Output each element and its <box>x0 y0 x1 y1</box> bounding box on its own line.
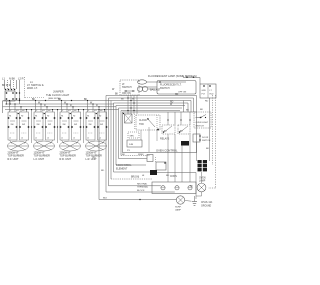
wire nest v4 <box>113 103 115 172</box>
wire inter-group <box>31 110 33 143</box>
svg-text:L2: L2 <box>21 138 23 140</box>
chassis ground symbol <box>192 201 197 203</box>
svg-text:L1: L1 <box>87 138 89 140</box>
node terminals right of SW1 <box>16 92 17 93</box>
svg-text:L2: L2 <box>99 138 101 140</box>
svg-text:H1: H1 <box>9 116 11 118</box>
svg-text:SWITCH: SWITCH <box>196 126 205 128</box>
svg-text:R.F. UNIT: R.F. UNIT <box>8 158 19 161</box>
box lamp holder <box>200 84 216 98</box>
terminal L1 <box>161 186 165 190</box>
svg-text:SW: SW <box>11 124 14 126</box>
wire nest v2 <box>108 98 110 186</box>
leader dashed <box>25 97 44 99</box>
switch SW1 terminals <box>5 89 6 90</box>
wire <box>13 80 15 89</box>
wire <box>201 192 203 196</box>
switch S3 RR surface switch <box>61 101 63 113</box>
wire verticals to terminal block <box>195 173 197 200</box>
lamp starter oval <box>138 80 147 84</box>
oven light switch dashed box <box>194 112 211 128</box>
node junction <box>45 100 46 101</box>
svg-text:OFF ON: OFF ON <box>122 93 131 95</box>
bake element box <box>156 162 166 170</box>
svg-text:L1: L1 <box>61 138 63 140</box>
wire bottom rail <box>99 199 177 201</box>
svg-text:DJB: DJB <box>129 144 134 146</box>
wire left ground run <box>98 110 100 200</box>
transformer T1 <box>125 114 133 123</box>
wire <box>114 171 151 173</box>
svg-text:LAMP: LAMP <box>199 180 206 183</box>
wire <box>6 101 8 104</box>
svg-text:R.R. UNIT: R.R. UNIT <box>60 158 72 161</box>
svg-text:BLOCK: BLOCK <box>137 190 145 192</box>
wire inter-group <box>57 110 59 143</box>
svg-text:TERMINAL: TERMINAL <box>137 186 149 189</box>
svg-text:L.R. UNIT: L.R. UNIT <box>86 158 98 161</box>
wire <box>7 80 9 89</box>
node junction <box>71 100 72 101</box>
switch S2 LF surface switch <box>35 101 37 113</box>
connector P1 dark <box>181 141 189 146</box>
wire bus L1 <box>3 100 112 102</box>
svg-text:OVEN CONTROL: OVEN CONTROL <box>156 148 178 152</box>
svg-text:BR(GN): BR(GN) <box>131 177 139 179</box>
svg-text:BK W R: BK W R <box>2 84 11 87</box>
node junction <box>19 100 20 101</box>
wire nest v5 <box>115 106 117 166</box>
wires into control top <box>127 96 129 115</box>
svg-text:GRD: GRD <box>202 90 207 92</box>
svg-text:WAR. LT.: WAR. LT. <box>27 86 38 90</box>
svg-text:DOOR: DOOR <box>202 137 209 139</box>
wire <box>16 80 18 89</box>
wire nest v1 <box>105 96 107 193</box>
wire <box>139 86 157 88</box>
svg-text:RD: RD <box>101 170 105 172</box>
wire nest h6 <box>119 107 183 109</box>
wire <box>201 172 203 183</box>
sensor box <box>128 132 139 138</box>
heating element E1 surface burner <box>8 141 29 151</box>
wires inside control <box>140 130 142 140</box>
heating element E4 surface burner <box>86 141 107 151</box>
switch S1 RF surface switch <box>9 101 11 113</box>
switch S4 LR surface switch <box>87 101 89 113</box>
wire nest v6 <box>118 108 120 159</box>
wire dashed <box>111 178 152 180</box>
wire <box>10 80 12 89</box>
svg-text:THE CLOCK LIGHT: THE CLOCK LIGHT <box>46 93 70 97</box>
terminal N <box>175 186 179 190</box>
relay K2 bake <box>162 125 175 134</box>
wire nest v7 <box>120 111 122 156</box>
connector P2 dark pairs <box>198 160 202 163</box>
svg-text:L1: L1 <box>9 138 11 140</box>
svg-text:SW: SW <box>48 124 51 126</box>
svg-text:H2: H2 <box>47 116 49 118</box>
svg-text:L2: L2 <box>73 138 75 140</box>
wire <box>19 80 21 104</box>
wire <box>109 185 161 187</box>
svg-text:CLOCK: CLOCK <box>139 120 147 122</box>
svg-text:SW: SW <box>100 124 103 126</box>
wire nest h2 <box>109 97 194 99</box>
svg-text:L1: L1 <box>35 138 37 140</box>
wire <box>4 80 6 89</box>
wire margin dashed v <box>212 95 214 165</box>
svg-text:SW: SW <box>37 124 40 126</box>
svg-text:NEUTRAL: NEUTRAL <box>137 183 148 186</box>
wire nest h7 <box>121 110 180 112</box>
svg-text:OVEN LIGHT: OVEN LIGHT <box>196 122 209 124</box>
wire right bends <box>196 96 198 113</box>
svg-text:H1: H1 <box>35 116 37 118</box>
wire inter-group <box>83 110 85 143</box>
heating element E3 surface burner <box>60 141 81 151</box>
svg-text:SWITCH: SWITCH <box>160 87 170 90</box>
terminal L2 <box>188 186 192 190</box>
svg-text:SWITCH: SWITCH <box>202 140 211 142</box>
svg-text:H1: H1 <box>61 116 63 118</box>
svg-text:CONN: CONN <box>170 176 177 178</box>
terminal block box <box>152 182 196 194</box>
svg-text:L.F. UNIT: L.F. UNIT <box>34 158 45 161</box>
svg-text:HLD: HLD <box>210 94 215 96</box>
broil element box <box>147 155 153 162</box>
relay K1 <box>147 118 155 127</box>
wire <box>2 101 4 113</box>
wire <box>9 101 11 105</box>
clock dashed box <box>136 115 160 130</box>
svg-text:OVEN: OVEN <box>199 178 206 180</box>
svg-text:SW: SW <box>89 124 92 126</box>
wire dashed <box>24 77 26 99</box>
lamp oven <box>197 183 206 192</box>
svg-text:SW: SW <box>74 124 77 126</box>
fuse surface lamp <box>176 196 184 204</box>
svg-text:TOD: TOD <box>139 124 144 126</box>
connector dark on wire <box>150 170 157 175</box>
wire bus <box>3 106 117 108</box>
wire <box>196 142 198 161</box>
heating element E2 surface burner <box>34 141 55 151</box>
svg-text:SW: SW <box>22 124 25 126</box>
svg-text:H2: H2 <box>99 116 101 118</box>
svg-text:N BK: N BK <box>9 77 15 81</box>
svg-text:H2: H2 <box>21 116 23 118</box>
wire nest h4 <box>114 102 189 104</box>
svg-text:H1: H1 <box>87 116 89 118</box>
svg-text:H2: H2 <box>73 116 75 118</box>
wire <box>196 77 200 79</box>
wire dashed <box>121 155 150 157</box>
svg-text:SEN: SEN <box>130 135 135 137</box>
svg-text:CHAS. GD.: CHAS. GD. <box>201 201 213 204</box>
wire nest v3 <box>110 101 112 180</box>
wire nest h1 <box>106 95 197 97</box>
wire nest h3 <box>111 100 191 102</box>
wire bus N <box>5 103 114 105</box>
svg-text:OFF ON: OFF ON <box>178 92 187 94</box>
svg-text:GROUND: GROUND <box>201 205 212 207</box>
svg-text:L2: L2 <box>47 138 49 140</box>
wire <box>116 164 146 166</box>
switch oven-light dashed box <box>120 80 139 95</box>
wire <box>119 158 148 160</box>
lamp ballast circles <box>137 86 142 91</box>
svg-text:BK: BK <box>115 94 119 96</box>
svg-text:ELEMENT: ELEMENT <box>116 167 128 170</box>
relay K3 broil <box>178 125 190 134</box>
svg-text:BLK: BLK <box>103 198 108 200</box>
svg-text:RD: RD <box>205 101 209 103</box>
svg-text:LAMP: LAMP <box>175 209 181 212</box>
node junction <box>98 109 99 110</box>
svg-text:L2 R: L2 R <box>18 77 24 81</box>
switch SW1 box <box>5 91 15 101</box>
svg-text:RD: RD <box>175 94 179 96</box>
box DJB <box>127 140 142 147</box>
wire nest h5 <box>116 105 185 107</box>
svg-text:SWITCH: SWITCH <box>122 86 132 89</box>
door switch box <box>193 134 200 142</box>
wire bus L2 <box>5 109 119 111</box>
node junction <box>9 103 10 104</box>
svg-text:SURF.: SURF. <box>175 207 182 209</box>
wire dashed <box>155 157 157 162</box>
oven control A1 box <box>123 112 197 153</box>
svg-text:SW: SW <box>63 124 66 126</box>
switch box fluorescent <box>157 81 196 95</box>
